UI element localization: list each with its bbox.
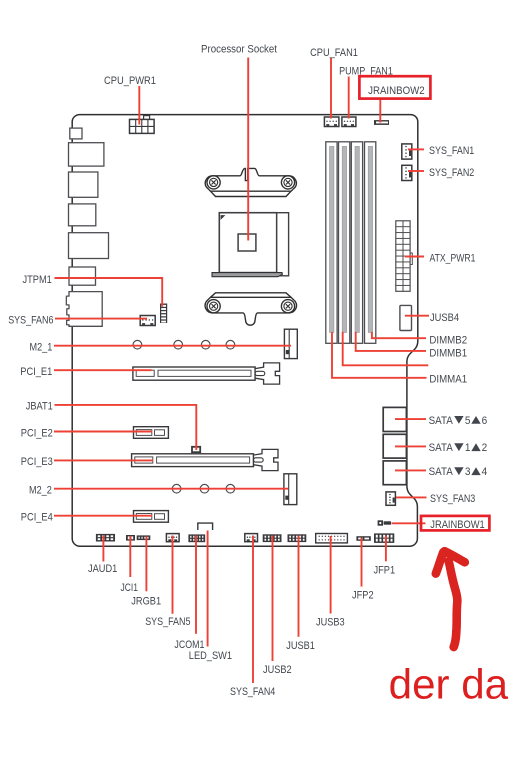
CPU socket lever bar: [212, 273, 282, 277]
wire PCI_E3 callout: [54, 459, 153, 461]
connector JAUD1: [96, 534, 115, 542]
svg-text:DIMMA1: DIMMA1: [429, 373, 467, 385]
I/O port PS2/USB small: [70, 128, 82, 139]
wire DIMMA1 callout: [332, 332, 427, 378]
wire JUSB4 callout: [405, 315, 429, 317]
hand-drawn arrow: [436, 551, 465, 647]
wire JRGB1 callout: [145, 537, 147, 592]
svg-text:CPU_PWR1: CPU_PWR1: [104, 75, 156, 87]
CPU socket inner square: [238, 234, 256, 251]
CPU socket corner mark: [221, 215, 226, 220]
I/O port USB block 2: [69, 204, 96, 226]
svg-text:1: 1: [465, 442, 471, 454]
I/O port video block: [69, 233, 109, 259]
wire JUSB3 callout: [330, 536, 332, 614]
wire CPU_PWR1 callout: [138, 86, 140, 125]
wire Processor Socket callout: [247, 58, 249, 241]
svg-text:3: 3: [465, 466, 471, 478]
svg-text:PCI_E2: PCI_E2: [21, 427, 53, 439]
SATA ports 1/2: [383, 434, 406, 458]
connector SYS_FAN2: [402, 165, 412, 180]
connector JRGB1: [137, 535, 151, 540]
wire SATA 1/2 callout: [395, 445, 426, 447]
svg-text:SATA: SATA: [429, 415, 454, 427]
svg-text:4: 4: [482, 466, 488, 478]
wire SYS_FAN3 callout: [396, 496, 427, 498]
svg-text:der da: der da: [389, 661, 509, 708]
wire PCI_E4 callout: [54, 515, 152, 517]
highlight box JRAINBOW2: [359, 76, 430, 98]
svg-text:JUSB4: JUSB4: [430, 312, 459, 324]
svg-text:SYS_FAN3: SYS_FAN3: [430, 493, 475, 505]
connector SYS_FAN4: [245, 534, 258, 542]
DIMM slot 1: [326, 142, 337, 343]
wire PCI_E2 callout: [54, 431, 152, 433]
svg-text:SYS_FAN4: SYS_FAN4: [230, 686, 275, 698]
motherboard board outline: [72, 115, 418, 547]
wire PCI_E1 callout: [54, 369, 152, 371]
CPU retention bracket bottom: [205, 293, 296, 325]
wire JCI1 callout: [129, 536, 131, 577]
connector JUSB3: [316, 534, 348, 543]
svg-text:DIMMB1: DIMMB1: [429, 347, 467, 359]
connector JFP2: [356, 536, 370, 541]
M2_2 standoff holes: [172, 484, 234, 493]
connector JUSB1: [288, 534, 307, 542]
svg-text:ATX_PWR1: ATX_PWR1: [430, 252, 476, 264]
connector JTPM1: [160, 304, 167, 324]
svg-text:PCI_E3: PCI_E3: [21, 456, 53, 468]
svg-text:Processor Socket: Processor Socket: [201, 44, 277, 56]
connector JRAINBOW1: [378, 520, 391, 525]
wire SYS_FAN6 callout: [55, 318, 147, 320]
PCI_E1 x16 slot: [133, 363, 280, 384]
wire JFP1 callout: [385, 536, 387, 562]
wire JAUD1 callout: [102, 536, 104, 562]
connector SYS_FAN1: [402, 144, 412, 159]
svg-text:JCOM1: JCOM1: [174, 639, 204, 651]
svg-text:JRGB1: JRGB1: [131, 596, 161, 608]
svg-text:SYS_FAN1: SYS_FAN1: [429, 145, 474, 157]
svg-text:SYS_FAN6: SYS_FAN6: [8, 314, 53, 326]
DIMM slot 3: [351, 142, 362, 343]
svg-text:JCI1: JCI1: [121, 582, 139, 594]
wire CPU_FAN1 callout: [330, 58, 332, 119]
wire SYS_FAN4 callout: [252, 536, 254, 684]
connector LED_SW1: [198, 523, 213, 530]
connector JUSB4: [400, 305, 412, 330]
svg-text:JFP2: JFP2: [352, 589, 374, 601]
svg-text:SYS_FAN5: SYS_FAN5: [145, 616, 190, 628]
connector JRAINBOW2: [374, 120, 389, 125]
connector ATX_PWR1 24-pin: [396, 221, 413, 291]
svg-text:2: 2: [482, 442, 488, 454]
wire SATA 5/6 callout: [395, 418, 426, 420]
CPU socket outer square: [219, 213, 276, 273]
SATA ports 5/6: [383, 407, 406, 431]
wire JBAT1 callout: [55, 405, 197, 450]
wire PUMP_FAN1 callout: [348, 77, 350, 119]
wire JRAINBOW2 callout: [379, 99, 381, 123]
I/O audio jack block: [66, 292, 102, 327]
wire JCOM1 callout: [195, 536, 197, 634]
wire SATA 3/4 callout: [395, 469, 426, 471]
svg-text:SATA: SATA: [429, 466, 454, 478]
wire SYS_FAN2 callout: [408, 170, 424, 172]
M2_1 connector: [284, 329, 297, 358]
M2_2 connector: [284, 474, 297, 505]
svg-text:M2_2: M2_2: [29, 485, 52, 497]
svg-text:CPU_FAN1: CPU_FAN1: [310, 47, 358, 59]
svg-text:M2_1: M2_1: [30, 342, 53, 354]
DIMM slot 4: [365, 142, 376, 343]
connector CPU_PWR1 8-pin: [130, 116, 155, 134]
wire ATX_PWR1 callout: [405, 256, 424, 258]
svg-text:PCI_E1: PCI_E1: [20, 366, 52, 378]
PCI_E4 x1 slot: [134, 511, 169, 523]
svg-text:LED_SW1: LED_SW1: [189, 650, 232, 662]
wire M2_2 callout: [54, 488, 288, 490]
I/O port LAN: [69, 172, 98, 197]
connector SYS_FAN6: [140, 316, 155, 326]
M2_1 standoff holes: [133, 340, 235, 349]
svg-text:SATA: SATA: [429, 442, 454, 454]
svg-text:DIMMB2: DIMMB2: [429, 334, 467, 346]
svg-text:JRAINBOW1: JRAINBOW1: [430, 519, 484, 531]
wire JRAINBOW1 callout: [392, 522, 426, 524]
svg-text:SYS_FAN2: SYS_FAN2: [429, 167, 474, 179]
svg-text:JTPM1: JTPM1: [23, 274, 52, 286]
wire DIMMB1 callout: [356, 332, 426, 351]
connector JCI1: [126, 535, 135, 541]
connector SYS_FAN3: [386, 492, 395, 505]
svg-text:JUSB3: JUSB3: [316, 617, 345, 629]
svg-text:JBAT1: JBAT1: [26, 401, 53, 413]
wire JUSB1 callout: [298, 536, 300, 637]
wire DIMMB2 callout: [372, 332, 426, 338]
I/O port USB block 1: [69, 143, 104, 166]
svg-text:PCI_E4: PCI_E4: [21, 512, 53, 524]
SATA ports 3/4: [383, 461, 406, 485]
CPU retention bracket top: [205, 168, 296, 196]
wire DIMMA2 callout unlabeled: [343, 332, 429, 365]
PCI_E3 x16 slot: [132, 449, 278, 470]
wire JTPM1 callout: [55, 278, 163, 307]
DIMM slot 2: [339, 142, 350, 343]
PCI_E2 x1 slot: [134, 427, 169, 439]
I/O port USB block 3: [69, 267, 96, 285]
connector JUSB2: [263, 534, 282, 542]
svg-text:JRAINBOW2: JRAINBOW2: [368, 85, 425, 97]
jumper JBAT1: [192, 447, 200, 452]
wire SYS_FAN1 callout: [408, 148, 424, 150]
svg-text:JUSB1: JUSB1: [286, 640, 315, 652]
connector PUMP_FAN1: [342, 117, 356, 127]
svg-text:JUSB2: JUSB2: [263, 664, 292, 676]
highlight box JRAINBOW1: [421, 516, 489, 531]
CPU socket lever housing strip: [277, 213, 289, 276]
wire LED_SW1 callout: [207, 531, 209, 647]
svg-text:5: 5: [465, 415, 471, 427]
svg-text:JAUD1: JAUD1: [88, 563, 117, 575]
svg-text:6: 6: [482, 415, 488, 427]
connector JCOM1: [188, 534, 205, 542]
wire JUSB2 callout: [272, 536, 274, 662]
connector CPU_FAN1: [324, 117, 339, 127]
wire SYS_FAN5 callout: [172, 536, 174, 614]
wire JFP2 callout: [361, 538, 363, 587]
svg-text:JFP1: JFP1: [374, 564, 396, 576]
connector SYS_FAN5: [166, 534, 179, 542]
wire M2_1 callout: [54, 345, 291, 347]
connector JFP1: [374, 533, 394, 543]
